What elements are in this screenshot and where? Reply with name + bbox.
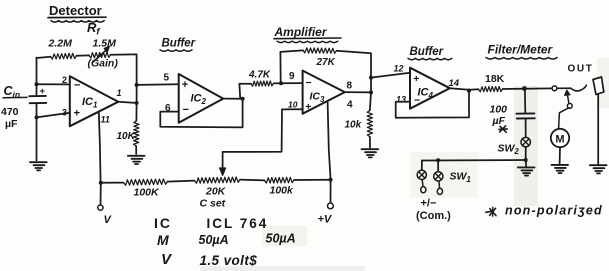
potentiometer wiper arrow (93, 46, 110, 62)
op-amp IC2 (164, 72, 224, 123)
wire IC2 pin5 input (137, 83, 179, 86)
wire IC1 pin11 supply (99, 112, 101, 183)
svg-text:Buffer: Buffer (162, 38, 196, 50)
op-amp IC1 (62, 75, 122, 126)
note asterisk non-polarized (486, 204, 603, 218)
svg-text:1.5M: 1.5M (93, 38, 117, 50)
potentiometer 20K (195, 177, 241, 183)
svg-text:8: 8 (347, 81, 353, 92)
svg-text:OUT: OUT (568, 64, 594, 75)
svg-text:2: 2 (62, 75, 67, 85)
wire to -V terminal (100, 183, 102, 205)
wire IC1 pin2 input (37, 83, 70, 85)
wire IC3 pin10 loop to pot wiper (223, 109, 303, 169)
op-amp IC3 (288, 71, 353, 114)
node IC4 output junction (467, 89, 471, 93)
node IC1 output junction (135, 101, 139, 105)
svg-text:4.7K: 4.7K (248, 70, 271, 81)
svg-text:14: 14 (449, 78, 460, 89)
label 20K (205, 186, 227, 198)
title Amplifier (274, 25, 342, 43)
wire IC3 output (345, 91, 371, 93)
resistor 27K (303, 48, 337, 53)
resistor 10k second (367, 93, 372, 148)
svg-text:µF: µF (5, 118, 18, 130)
svg-text:M: M (555, 134, 564, 146)
meter switch contact arrow (565, 90, 570, 103)
wire bottom rail left (101, 180, 331, 183)
label 27K (316, 57, 336, 68)
svg-text:50µA: 50µA (199, 233, 229, 247)
wire SW1 right drop (437, 160, 439, 172)
svg-text:+: + (74, 108, 80, 120)
svg-text:+: + (305, 101, 311, 113)
wire feedback top horizontal (37, 54, 137, 58)
svg-text:5: 5 (164, 72, 170, 83)
potentiometer 1.5M (89, 52, 111, 58)
svg-text:+: + (182, 79, 188, 91)
label V terminal (104, 214, 113, 226)
label 470 uF (1, 106, 19, 130)
svg-text:−: − (183, 104, 189, 116)
wire SW2 ground stub (525, 160, 527, 166)
svg-text:12: 12 (394, 64, 404, 74)
svg-text:+/−: +/− (421, 198, 437, 210)
note V value (161, 251, 257, 268)
label Rf (87, 20, 100, 38)
svg-text:100k: 100k (270, 185, 295, 197)
terminal V (98, 205, 103, 210)
label Cin (3, 84, 27, 100)
svg-text:470: 470 (1, 106, 19, 118)
label 100K left (134, 187, 161, 199)
wire IC1 output (118, 102, 136, 103)
wire meter branch (559, 108, 569, 129)
svg-text:1.5 volt$: 1.5 volt$ (200, 253, 258, 268)
svg-text:4: 4 (347, 100, 353, 111)
svg-text:Detector: Detector (49, 3, 102, 18)
label 1.5M (93, 38, 117, 50)
switch SW2 (521, 137, 530, 146)
resistor 18K (479, 87, 503, 92)
wire IC4 output (450, 88, 469, 90)
wire IC1 pin3 input (37, 113, 70, 118)
ground below jack (590, 165, 607, 173)
resistor 4.7K (251, 81, 274, 86)
label (Gain) (88, 58, 119, 70)
wire to 4.7K resistor (239, 83, 281, 98)
svg-text:27K: 27K (316, 57, 336, 68)
wire SW2 to ground (525, 147, 527, 160)
wire IC2 feedback loop (160, 99, 242, 127)
label SW2 (498, 143, 520, 157)
node SW2 bottom junction (524, 158, 528, 162)
svg-text:−: − (74, 79, 80, 91)
resistor 2.2M (51, 53, 77, 59)
svg-text:2.2M: 2.2M (48, 38, 73, 50)
svg-text:C set: C set (200, 198, 226, 210)
svg-text:10: 10 (288, 100, 298, 110)
terminal meter switch circle (567, 104, 572, 109)
svg-text:+: + (40, 86, 46, 97)
svg-text:+V: +V (318, 214, 333, 226)
title Detector (48, 3, 106, 22)
terminal +V (328, 203, 334, 209)
svg-text:+: + (413, 73, 419, 85)
wire cap to SW2 (525, 119, 527, 138)
resistor 100k right (265, 177, 295, 183)
wire IC2 output (223, 98, 242, 100)
svg-text:50µA: 50µA (266, 232, 296, 246)
wire jack tip spring (557, 85, 587, 91)
svg-text:11: 11 (101, 115, 110, 125)
svg-text:9: 9 (289, 71, 295, 82)
node filter junction (522, 86, 527, 91)
label 18K (485, 73, 505, 85)
wire IC3 output vertical (370, 77, 372, 93)
wire Cin lower vertical (36, 103, 38, 160)
wire IC1 feedback vertical (136, 54, 138, 103)
svg-text:18K: 18K (485, 73, 505, 85)
node IC3 output junction (369, 90, 373, 94)
title Buffer 1 (160, 38, 196, 52)
svg-text:100: 100 (490, 104, 508, 116)
wire IC3 pin4 supply (328, 102, 331, 180)
ground below SW2 (518, 167, 535, 175)
svg-text:M: M (157, 232, 169, 248)
op-amp IC4 (394, 64, 460, 109)
wire 27K feedback loop left (280, 50, 303, 83)
svg-text:IC: IC (154, 215, 172, 231)
switch SW1 left terminal (417, 170, 426, 179)
ground below 10k second (362, 149, 379, 157)
label C set (200, 198, 226, 210)
svg-text:(Gain): (Gain) (88, 58, 119, 70)
wire IC3 pin9 input (281, 82, 303, 84)
wire IC4 pin12 input (371, 73, 410, 78)
label +/- (Com.) (416, 198, 451, 223)
meter M1 (551, 129, 569, 147)
ground below Cin (30, 162, 47, 170)
svg-text:10K: 10K (117, 131, 136, 142)
node SW1 junction (436, 158, 440, 162)
svg-text:−: − (306, 77, 312, 89)
ground below meter (551, 165, 568, 173)
node pin3 junction (35, 115, 39, 119)
wire to 18K resistor (469, 89, 525, 90)
terminal SW1 left lug (421, 180, 426, 193)
label 100 uF * (490, 104, 508, 133)
capacitor 100uF (516, 113, 534, 118)
label 2.2M (48, 38, 73, 50)
wire SW1 horizontal (422, 159, 526, 162)
label 100k right (270, 185, 295, 197)
note M value (157, 232, 296, 249)
label SW1 (450, 171, 472, 185)
pot wiper arrowhead (220, 168, 226, 175)
svg-text:10k: 10k (345, 120, 362, 131)
wire 27K feedback loop right (337, 51, 372, 77)
svg-text:ICL 764: ICL 764 (207, 216, 269, 231)
wire to +V terminal (330, 180, 332, 203)
svg-text:3: 3 (62, 107, 67, 117)
capacitor 100uF branch wire (524, 89, 526, 113)
svg-text:non-polariʒed: non-polariʒed (505, 204, 603, 218)
node IC2 output junction (241, 97, 245, 101)
wire SW1 left drop (421, 161, 423, 171)
terminal SW1 right lug (437, 181, 442, 194)
svg-text:13: 13 (396, 95, 406, 105)
note IC value (154, 215, 268, 231)
node IC3 pin9 junction (279, 81, 283, 85)
label 4.7K (248, 70, 271, 81)
svg-text:20K: 20K (205, 186, 227, 198)
wire meter to ground (559, 147, 561, 163)
node rail left junction (99, 181, 103, 185)
node buffer tap junction (135, 83, 139, 87)
resistor 100K left (124, 179, 168, 185)
svg-text:Filter/Meter: Filter/Meter (488, 43, 554, 57)
title Buffer 2 (408, 46, 452, 60)
label +V terminal (318, 214, 333, 226)
node rail right junction (329, 178, 333, 182)
wire to output jack (525, 87, 553, 89)
svg-text:Amplifier: Amplifier (274, 25, 328, 39)
terminal output circle (552, 86, 557, 91)
wire IC4 feedback loop (396, 91, 469, 118)
label 10k second (345, 120, 362, 131)
capacitor Cin (29, 86, 46, 103)
svg-text:Buffer: Buffer (410, 46, 444, 58)
resistor 10K first (134, 104, 139, 155)
node pin2 junction (35, 82, 39, 86)
label OUT (568, 64, 594, 75)
phone jack plug (593, 77, 604, 164)
wire feedback top left vertical (36, 58, 38, 96)
svg-text:(Com.): (Com.) (416, 210, 451, 222)
switch SW1 right terminal (434, 172, 443, 181)
ground below 10K first (128, 156, 145, 164)
title Filter/Meter (486, 43, 557, 60)
svg-text:100K: 100K (134, 187, 161, 199)
svg-text:1: 1 (117, 88, 122, 98)
label 10K first (117, 131, 136, 142)
svg-text:µF: µF (492, 115, 506, 127)
node IC3 to pin12 junction (369, 76, 373, 80)
